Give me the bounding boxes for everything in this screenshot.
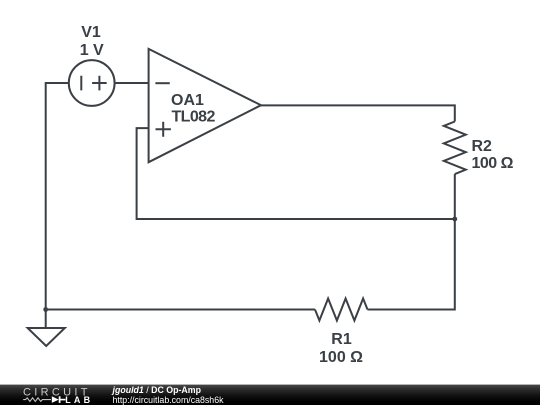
wire [454,174,456,219]
label 1 V [80,42,104,59]
svg-text:R1: R1 [331,331,352,348]
footer text [113,384,224,405]
svg-text:V1: V1 [81,24,101,41]
label R2 [472,138,493,155]
ground [28,310,65,347]
label V1 [81,24,101,41]
wire [46,83,69,310]
svg-text:100 Ω: 100 Ω [319,349,363,366]
svg-text:TL082: TL082 [172,109,216,126]
wire [137,128,455,219]
label TL082 [172,109,216,126]
resistor R1 [315,299,368,321]
footer bar [0,384,540,405]
op-amp OA1 [149,49,261,162]
voltage source V1 [69,60,115,106]
wire [261,105,455,121]
CircuitLab logo [18,384,98,405]
svg-text:LAB: LAB [65,395,93,405]
label R2 value 100 ohm [472,155,514,172]
wire [115,82,149,84]
svg-text:100 Ω: 100 Ω [472,155,514,172]
svg-text:R2: R2 [472,138,493,155]
svg-text:OA1: OA1 [171,92,204,109]
resistor R2 [444,122,466,175]
node junction [452,217,457,222]
wire [368,219,455,310]
label R1 [331,331,352,348]
label R1 value 100 ohm [319,349,363,366]
svg-text:1 V: 1 V [80,42,104,59]
wire [46,309,315,311]
node junction [43,307,48,312]
label OA1 [171,92,204,109]
